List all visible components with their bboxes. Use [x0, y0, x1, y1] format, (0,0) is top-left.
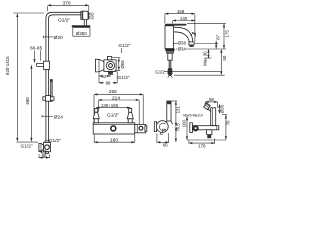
dim 214: [98, 95, 139, 124]
svg-text:Ø28: Ø28: [219, 105, 224, 114]
svg-text:820-1415: 820-1415: [5, 56, 10, 75]
dim 370: [48, 0, 89, 11]
dim 60-85: [30, 45, 43, 62]
svg-text:168: 168: [177, 9, 185, 14]
svg-text:135÷165: 135÷165: [101, 103, 119, 108]
node wall plate: [190, 123, 193, 133]
dim 87: [195, 34, 221, 48]
node bracket arm: [191, 126, 219, 130]
svg-text:176: 176: [198, 143, 206, 148]
dim O65: [113, 58, 125, 71]
svg-text:Ø250: Ø250: [76, 31, 87, 36]
dim 76.5: [175, 123, 180, 142]
node faucet spout: [174, 27, 193, 42]
node jet angle annotation: [192, 32, 196, 36]
svg-text:214: 214: [112, 95, 120, 101]
svg-text:175: 175: [225, 30, 230, 38]
svg-text:Ø20: Ø20: [54, 35, 63, 41]
dim 135-165: [96, 103, 130, 112]
dim 140: [173, 16, 195, 24]
node wall bracket: [37, 61, 50, 69]
node hose connector: [207, 130, 212, 135]
component hand shower in holder: [154, 101, 172, 134]
node shank: [168, 53, 172, 60]
svg-text:Max5-Max10: Max5-Max10: [183, 113, 203, 117]
dim 175: [187, 24, 230, 49]
dim 680: [25, 65, 32, 141]
node spray body: [211, 108, 216, 126]
dim 88 column valve: [39, 153, 49, 158]
component mixer front view body: [93, 123, 147, 134]
svg-text:Ø34: Ø34: [178, 46, 187, 51]
svg-text:60-85: 60-85: [30, 45, 43, 51]
component basin faucet: [165, 24, 196, 78]
dim 176: [189, 138, 215, 148]
svg-text:88: 88: [42, 153, 47, 158]
node base gasket: [165, 49, 174, 51]
svg-text:88: 88: [106, 80, 111, 85]
node knob: [193, 125, 199, 131]
node hose nut: [168, 68, 173, 76]
svg-text:G1/2: G1/2: [155, 70, 165, 75]
node aerator: [189, 42, 194, 45]
node faucet body: [165, 26, 174, 49]
node shower arm fitting: [81, 11, 88, 25]
dim 70: [222, 115, 230, 140]
svg-text:265: 265: [109, 89, 117, 95]
wire riser pipe upper: [46, 12, 81, 141]
svg-text:76.5: 76.5: [175, 123, 180, 132]
svg-text:62: 62: [102, 74, 107, 79]
svg-text:140: 140: [180, 16, 188, 21]
svg-text:370: 370: [62, 0, 70, 6]
svg-text:100: 100: [182, 120, 187, 128]
svg-text:G1/2": G1/2": [21, 144, 33, 150]
dim 66: [157, 133, 169, 148]
svg-text:Ø38: Ø38: [178, 40, 187, 45]
node right union: [127, 108, 133, 122]
node label G1/2 faucet: [155, 70, 221, 75]
dim 58: [205, 97, 217, 107]
dim 100: [182, 117, 187, 140]
svg-text:G1/2": G1/2": [118, 43, 130, 49]
node left union: [93, 108, 99, 122]
svg-text:58: 58: [209, 97, 214, 102]
svg-text:Max 30: Max 30: [202, 51, 207, 66]
node threaded stud: [169, 60, 171, 68]
component valve column side view: [39, 141, 51, 154]
svg-text:G1/2": G1/2": [58, 17, 70, 23]
dim 88 valve: [99, 72, 117, 86]
dim Max 30: [202, 49, 211, 65]
svg-text:50: 50: [222, 55, 227, 60]
svg-text:G1/2": G1/2": [107, 113, 119, 119]
dim O38: [173, 40, 187, 45]
component valve side view large: [95, 56, 116, 74]
node spray head: [204, 103, 211, 110]
dim 265: [94, 89, 143, 124]
dim 62 valve: [99, 74, 110, 79]
dim 62 column valve: [39, 149, 49, 154]
svg-text:G1/2": G1/2": [118, 75, 130, 81]
dim 180: [94, 135, 135, 144]
svg-text:66: 66: [163, 143, 168, 148]
dim 50: [174, 49, 227, 75]
component wall spray holder: [190, 103, 219, 138]
node bottom reference line: [187, 139, 226, 141]
svg-text:Ø65: Ø65: [120, 60, 125, 69]
dim O28: [219, 104, 224, 113]
node label G1/2 valve top: [118, 43, 130, 53]
node label box O250: [73, 28, 90, 37]
dim 105: [89, 12, 95, 20]
svg-text:Ø24: Ø24: [54, 115, 63, 121]
svg-text:131: 131: [175, 106, 180, 114]
node overhead shower head: [72, 25, 90, 27]
dim 820-1415: [5, 13, 44, 142]
dim 131: [171, 101, 180, 126]
svg-text:70: 70: [225, 120, 230, 125]
node faucet lever: [165, 24, 187, 26]
svg-text:105: 105: [90, 12, 95, 20]
svg-text:87: 87: [216, 34, 221, 39]
dim 168: [165, 9, 195, 41]
node hand shower handle: [50, 79, 53, 101]
dim O20: [43, 35, 63, 41]
dim O24: [42, 115, 63, 121]
svg-text:680: 680: [25, 97, 30, 105]
svg-text:180: 180: [110, 138, 118, 144]
node counter line with O34: [176, 46, 226, 51]
node slider holder: [43, 96, 54, 102]
